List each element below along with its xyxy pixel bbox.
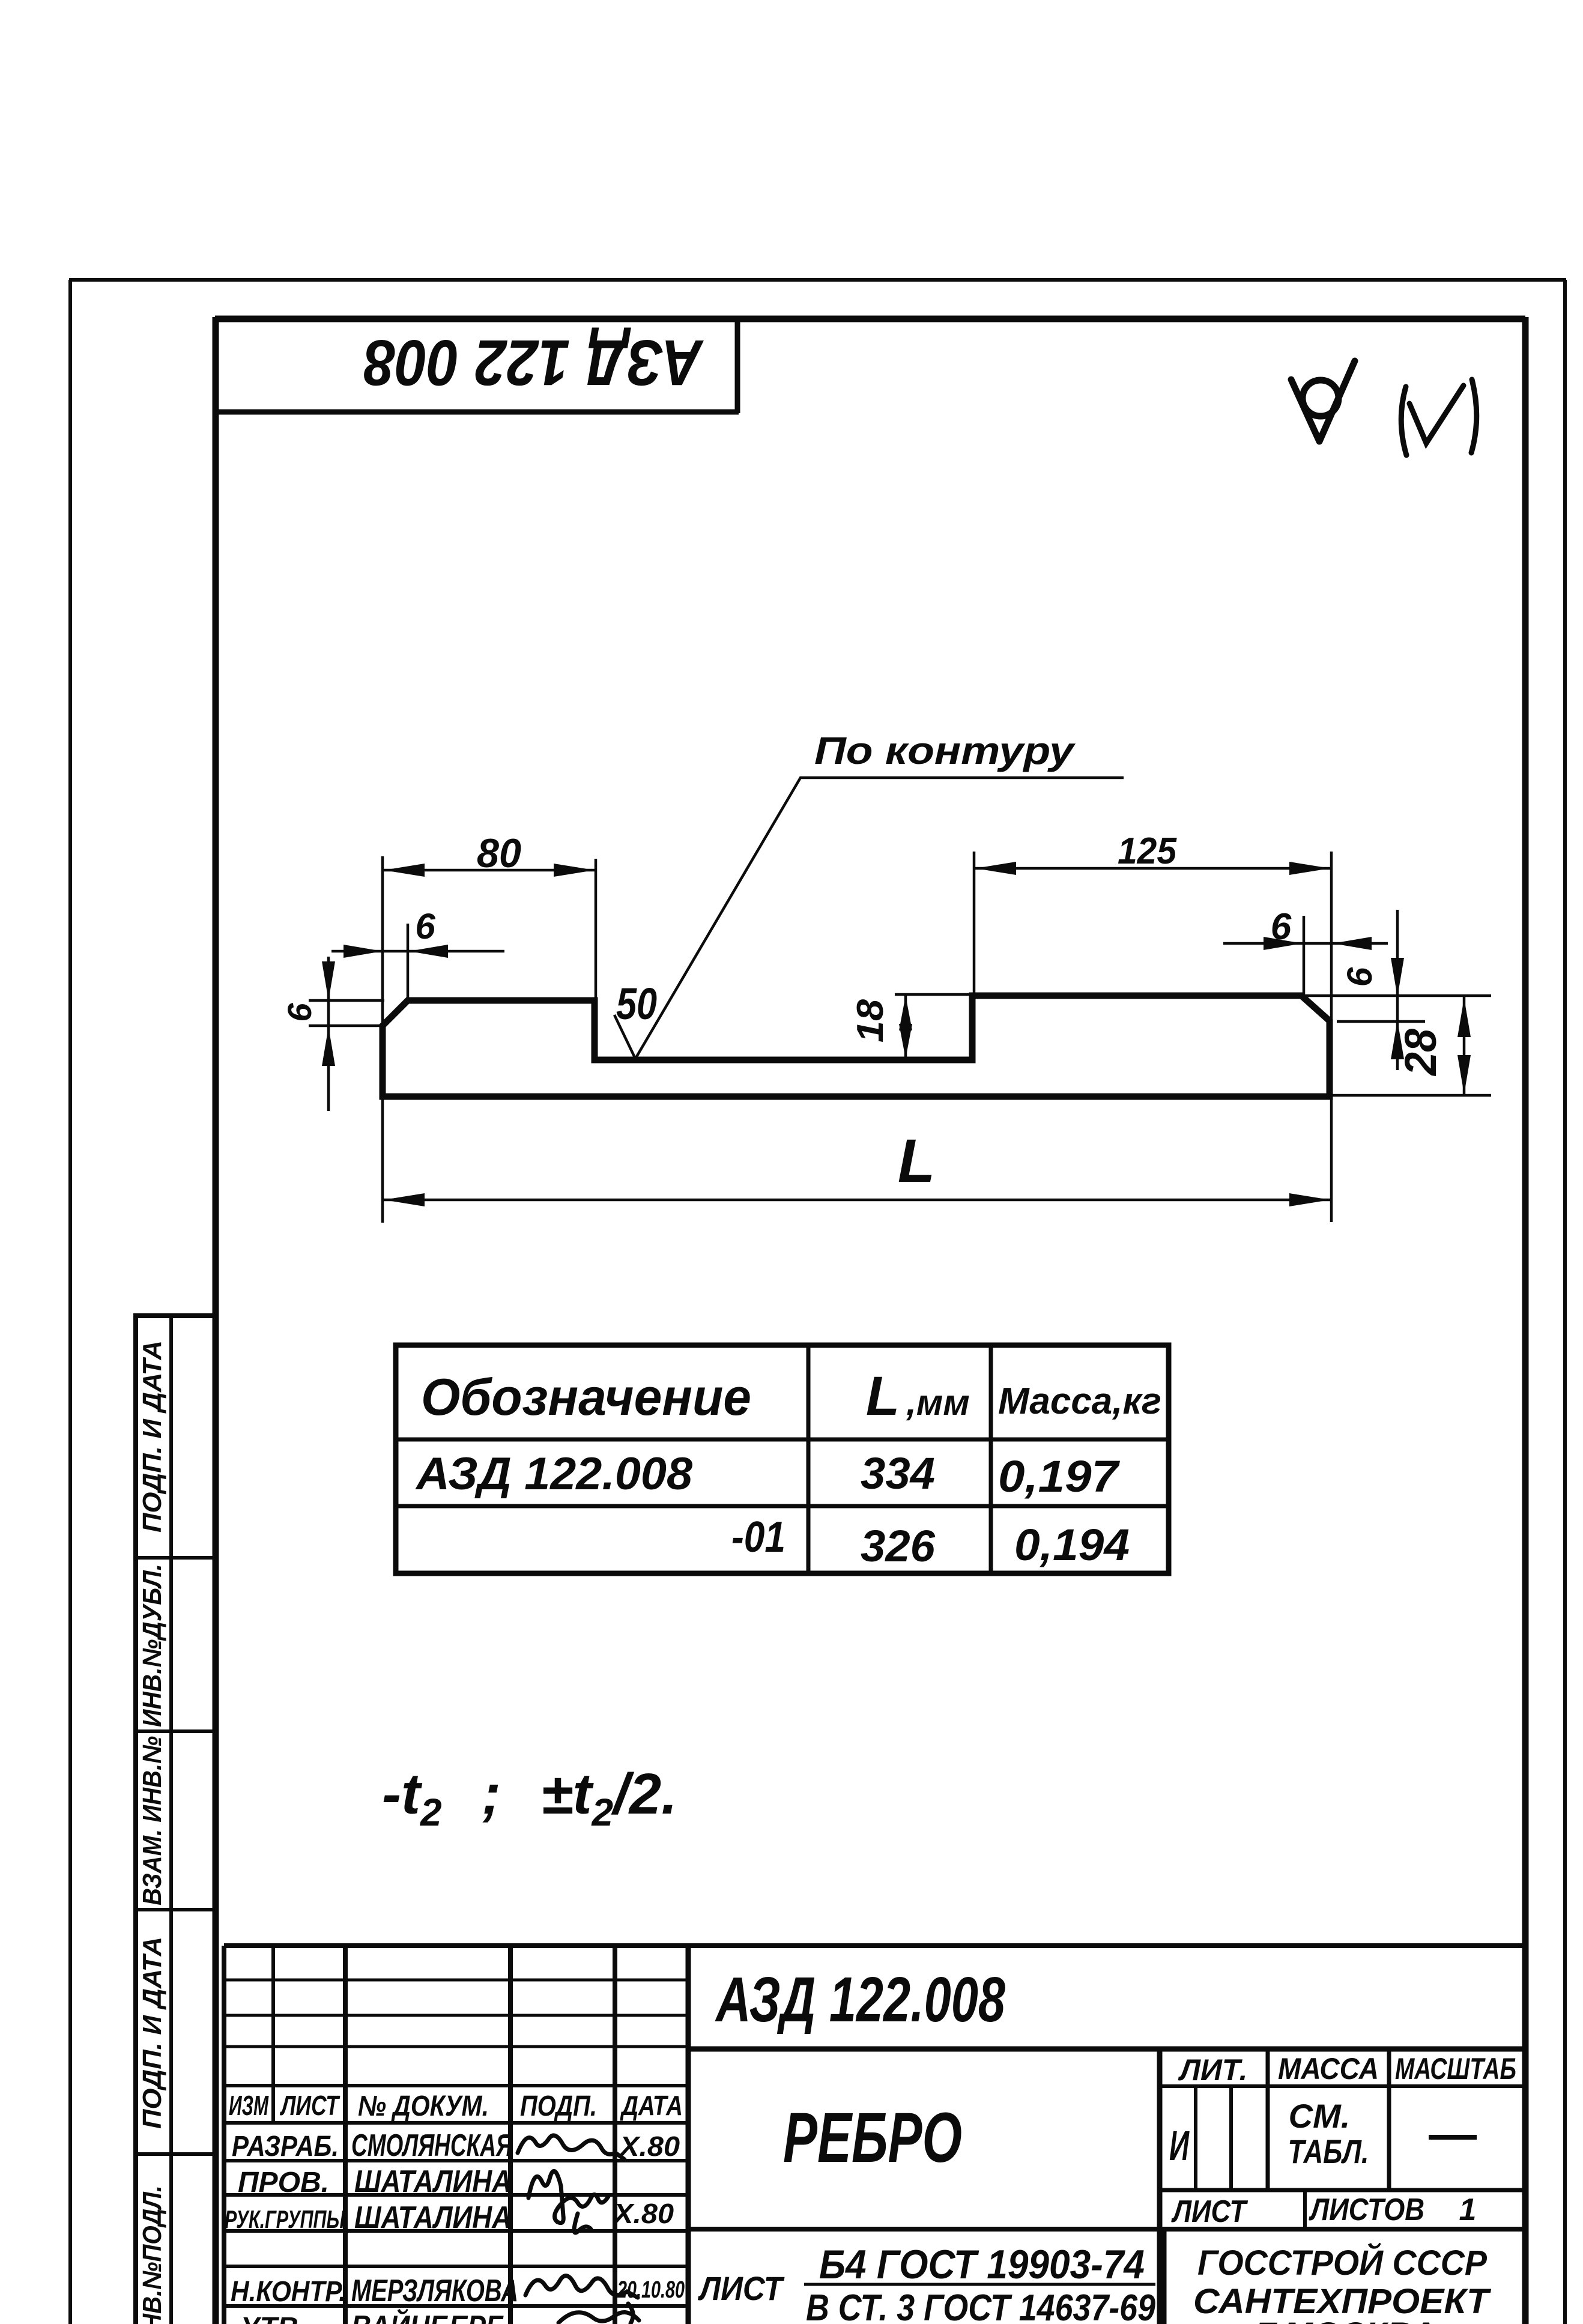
- svg-text:РЕБРО: РЕБРО: [783, 2098, 962, 2177]
- svg-text:Н.КОНТР.: Н.КОНТР.: [231, 2276, 346, 2308]
- svg-text:АЗД 122 008: АЗД 122 008: [364, 327, 704, 399]
- inner frame left: [213, 317, 219, 2324]
- svg-text:По контуру: По контуру: [814, 729, 1076, 772]
- svg-text:ТАБЛ.: ТАБЛ.: [1288, 2132, 1369, 2170]
- inner frame top: [215, 316, 1525, 322]
- svg-text:МАССА: МАССА: [1278, 2052, 1379, 2086]
- vert dim 6 right: [1396, 910, 1399, 1070]
- svg-text:6: 6: [280, 1003, 318, 1022]
- dim 28: [1463, 997, 1466, 1095]
- ext 125 left: [973, 852, 976, 994]
- svg-text:L: L: [898, 1127, 935, 1195]
- svg-text:1: 1: [1459, 2192, 1477, 2227]
- svg-text:ШАТАЛИНА: ШАТАЛИНА: [354, 2164, 512, 2199]
- svg-text:В СТ. 3 ГОСТ 14637-69: В СТ. 3 ГОСТ 14637-69: [806, 2287, 1155, 2324]
- svg-text:326: 326: [861, 1521, 936, 1571]
- ext line left step: [595, 859, 598, 999]
- vert dim 6 left: [327, 957, 330, 1111]
- outer border top: [69, 278, 1566, 282]
- svg-text:334: 334: [861, 1448, 935, 1498]
- title block: [224, 1946, 1525, 2324]
- svg-text:ИНВ.№ДУБЛ.: ИНВ.№ДУБЛ.: [138, 1564, 167, 1727]
- svg-text:ПРОВ.: ПРОВ.: [238, 2167, 329, 2198]
- svg-text:80: 80: [477, 831, 521, 876]
- roughness mark 2: (V): [1401, 380, 1477, 455]
- stamp box top-left (upside down doc number): [216, 320, 739, 413]
- signature n.kontr: [525, 2276, 638, 2298]
- svg-text:СМОЛЯНСКАЯ: СМОЛЯНСКАЯ: [351, 2128, 513, 2163]
- left margin strip: [133, 1316, 216, 2324]
- svg-text:X.80: X.80: [618, 2131, 680, 2162]
- svg-text:ЛИСТ: ЛИСТ: [1171, 2194, 1249, 2229]
- ext y1666 left: [309, 999, 384, 1002]
- ext y1708 left: [309, 1024, 383, 1027]
- svg-text:28: 28: [1396, 1028, 1445, 1077]
- svg-text:РАЗРАБ.: РАЗРАБ.: [232, 2131, 339, 2162]
- ext right end long: [1330, 852, 1333, 1222]
- dim 18: [904, 994, 907, 1060]
- svg-text:18: 18: [850, 999, 891, 1042]
- ext line chamfer top: [407, 924, 410, 999]
- svg-text:X.80: X.80: [612, 2198, 674, 2229]
- dim 6 right horiz: [1223, 942, 1388, 945]
- dimension lines group: [309, 778, 1491, 1223]
- svg-text:6: 6: [1340, 967, 1379, 987]
- svg-text:МЕРЗЛЯКОВА: МЕРЗЛЯКОВА: [351, 2274, 518, 2308]
- signature prov (big): [528, 2171, 609, 2223]
- leader po konturu: [614, 778, 1124, 1059]
- svg-text:ИЗМ: ИЗМ: [229, 2090, 269, 2121]
- outer border left: [68, 280, 72, 2324]
- svg-text:И: И: [1169, 2122, 1190, 2169]
- svg-text:ПОДП. И ДАТА: ПОДП. И ДАТА: [138, 1937, 167, 2129]
- svg-text:ДАТА: ДАТА: [620, 2090, 683, 2121]
- svg-text:РУК.ГРУППЫ: РУК.ГРУППЫ: [225, 2205, 345, 2233]
- svg-text:УТВ.: УТВ.: [240, 2312, 306, 2324]
- revision table: [224, 1946, 688, 2324]
- svg-text:АЗД 122.008: АЗД 122.008: [715, 1964, 1005, 2035]
- svg-text:ВЗАМ. ИНВ.№: ВЗАМ. ИНВ.№: [138, 1736, 167, 1905]
- inner frame right: [1522, 317, 1529, 2324]
- svg-text:L: L: [866, 1366, 900, 1427]
- dim line L: [383, 1199, 1331, 1202]
- svg-text:Масса,кг: Масса,кг: [998, 1381, 1161, 1422]
- svg-text:Обозначение: Обозначение: [421, 1369, 751, 1426]
- svg-text:ЛИСТ: ЛИСТ: [280, 2090, 341, 2121]
- part profile: [383, 996, 1330, 1097]
- svg-text:50: 50: [616, 979, 657, 1029]
- dimension texts: [280, 729, 1445, 1195]
- svg-text:0,197: 0,197: [998, 1451, 1121, 1501]
- svg-text:Б4 ГОСТ 19903-74: Б4 ГОСТ 19903-74: [819, 2242, 1145, 2287]
- roughness mark 1: check with circle (upside down): [1291, 361, 1355, 441]
- svg-text:6: 6: [1271, 906, 1292, 948]
- svg-text:ПОДП. И ДАТА: ПОДП. И ДАТА: [138, 1340, 167, 1533]
- svg-text:ВАЙНБЕРГ: ВАЙНБЕРГ: [351, 2308, 504, 2324]
- ext chamfer bottom right: [1337, 1020, 1425, 1023]
- svg-text:6: 6: [415, 906, 435, 946]
- svg-text:ЛИСТОВ: ЛИСТОВ: [1309, 2192, 1424, 2227]
- svg-text:ЛИСТ: ЛИСТ: [697, 2269, 785, 2307]
- signatures: [518, 2135, 639, 2323]
- outer border right: [1563, 280, 1567, 2324]
- signature razrab: [518, 2135, 625, 2159]
- ext chamfer right: [1303, 916, 1306, 996]
- signature utv (cut): [558, 2313, 639, 2323]
- svg-text:АЗД 122.008: АЗД 122.008: [415, 1448, 693, 1499]
- svg-text:МАСШТАБ: МАСШТАБ: [1395, 2052, 1516, 2086]
- ext 18 top: [895, 993, 972, 996]
- dim line 125: [974, 867, 1331, 870]
- svg-text:Г.МОСКВА: Г.МОСКВА: [1255, 2315, 1436, 2324]
- svg-text:,мм: ,мм: [906, 1382, 969, 1423]
- ext line left end: [381, 856, 384, 1223]
- svg-text:СМ.: СМ.: [1289, 2097, 1351, 2135]
- ext bottom right: [1333, 1094, 1491, 1097]
- arrowheads: [322, 862, 1471, 1206]
- ext top face right: [1301, 994, 1491, 997]
- svg-text:125: 125: [1118, 831, 1177, 872]
- svg-text:-01: -01: [731, 1513, 785, 1561]
- svg-text:ШАТАЛИНА: ШАТАЛИНА: [354, 2200, 512, 2235]
- svg-text:0,194: 0,194: [1014, 1520, 1130, 1570]
- svg-text:ПОДП.: ПОДП.: [520, 2090, 597, 2122]
- dim line 6 top left: [331, 950, 504, 953]
- svg-text:ГОССТРОЙ СССР: ГОССТРОЙ СССР: [1197, 2243, 1487, 2283]
- svg-text:ИНВ.№ПОДЛ.: ИНВ.№ПОДЛ.: [138, 2185, 167, 2324]
- svg-text:№ ДОКУМ.: № ДОКУМ.: [358, 2090, 489, 2122]
- svg-text:ЛИТ.: ЛИТ.: [1178, 2053, 1248, 2087]
- size table: [396, 1345, 1169, 1573]
- dim line 80: [383, 869, 596, 872]
